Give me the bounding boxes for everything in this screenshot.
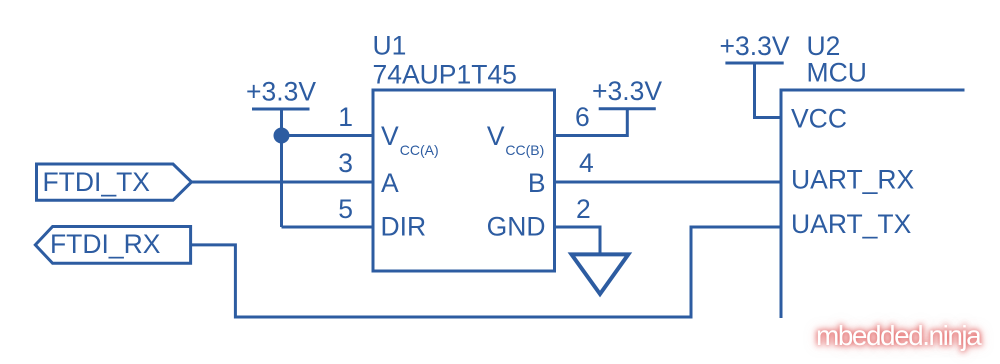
svg-text:+3.3V: +3.3V bbox=[246, 77, 316, 107]
svg-text:2: 2 bbox=[576, 194, 591, 224]
svg-text:1: 1 bbox=[338, 102, 353, 132]
svg-text:6: 6 bbox=[575, 102, 590, 132]
svg-text:74AUP1T45: 74AUP1T45 bbox=[373, 60, 517, 90]
svg-text:MCU: MCU bbox=[807, 58, 867, 88]
svg-text:V: V bbox=[487, 121, 505, 151]
wire FTDI_RX to UART_TX bbox=[191, 227, 781, 317]
op-amp U1 box bbox=[373, 90, 555, 271]
wire pin 4 B to UART_RX bbox=[555, 181, 782, 184]
watermark mbedded.ninja bbox=[816, 322, 1000, 350]
wire pin 2 GND bbox=[555, 227, 601, 254]
svg-text:FTDI_TX: FTDI_TX bbox=[43, 167, 151, 197]
net flag FTDI_RX outline bbox=[35, 227, 190, 264]
power +3.3V PWR2 bar bbox=[599, 107, 656, 110]
svg-text:+3.3V: +3.3V bbox=[592, 76, 662, 106]
svg-text:UART_RX: UART_RX bbox=[791, 165, 915, 195]
ground symbol bbox=[572, 254, 629, 294]
svg-text:+3.3V: +3.3V bbox=[720, 31, 790, 61]
junction node at pin 1 bbox=[274, 128, 290, 144]
svg-text:CC(B): CC(B) bbox=[505, 142, 544, 158]
wire +3.3V vertical to DIR bbox=[280, 109, 283, 227]
svg-text:B: B bbox=[528, 168, 546, 198]
svg-text:V: V bbox=[381, 121, 399, 151]
svg-text:CC(A): CC(A) bbox=[400, 142, 439, 158]
wire +3.3V to MCU VCC bbox=[755, 63, 782, 118]
svg-text:UART_TX: UART_TX bbox=[791, 209, 912, 239]
wire pin 5 DIR bbox=[282, 226, 374, 229]
svg-text:VCC: VCC bbox=[791, 104, 847, 134]
svg-text:GND: GND bbox=[487, 212, 546, 242]
wire pin 6 VCC(B) to +3.3V bbox=[555, 109, 628, 136]
power +3.3V PWR3 bar bbox=[725, 62, 783, 65]
net flag FTDI_TX outline bbox=[37, 164, 192, 200]
svg-text:U1: U1 bbox=[373, 31, 407, 61]
svg-text:4: 4 bbox=[579, 148, 594, 178]
IC U2 MCU box outline bbox=[781, 90, 965, 318]
svg-text:A: A bbox=[381, 168, 399, 198]
wire pin 1 VCC(A) bbox=[282, 134, 374, 137]
svg-text:U2: U2 bbox=[807, 31, 841, 61]
wire pin 3 A from FTDI_TX bbox=[192, 181, 374, 184]
power +3.3V PWR1 bar bbox=[252, 108, 310, 111]
svg-text:5: 5 bbox=[338, 194, 353, 224]
svg-text:3: 3 bbox=[338, 148, 353, 178]
svg-text:FTDI_RX: FTDI_RX bbox=[50, 229, 161, 259]
svg-text:DIR: DIR bbox=[381, 212, 427, 242]
